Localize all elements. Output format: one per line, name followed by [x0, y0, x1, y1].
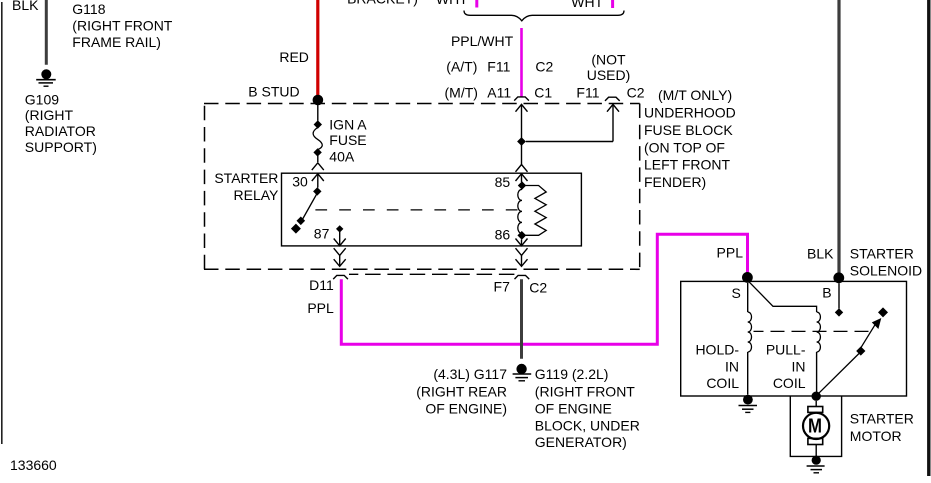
svg-text:BLK: BLK [12, 0, 39, 13]
svg-text:RELAY: RELAY [234, 187, 280, 203]
svg-text:STARTER: STARTER [850, 245, 914, 261]
svg-text:(M/T ONLY): (M/T ONLY) [658, 87, 732, 103]
svg-text:GENERATOR): GENERATOR) [535, 434, 627, 450]
svg-text:FUSE: FUSE [329, 132, 366, 148]
svg-text:MOTOR: MOTOR [850, 428, 902, 444]
svg-text:G109: G109 [25, 91, 59, 107]
svg-text:86: 86 [495, 226, 511, 242]
svg-text:PPL/WHT: PPL/WHT [451, 33, 514, 49]
svg-text:LEFT FRONT: LEFT FRONT [644, 157, 731, 173]
svg-text:BLK: BLK [807, 246, 834, 262]
svg-text:(M/T): (M/T) [445, 85, 478, 101]
svg-text:SUPPORT): SUPPORT) [25, 139, 97, 155]
svg-text:IN: IN [792, 358, 806, 374]
svg-text:RED: RED [279, 49, 309, 65]
svg-text:A11: A11 [487, 85, 511, 101]
svg-text:F11: F11 [576, 85, 599, 101]
svg-text:IGN A: IGN A [329, 117, 367, 133]
svg-text:G119 (2.2L): G119 (2.2L) [535, 366, 609, 382]
svg-text:PULL-: PULL- [766, 342, 806, 358]
svg-text:PPL: PPL [717, 245, 744, 261]
svg-text:COIL: COIL [773, 375, 806, 391]
svg-text:FRAME RAIL): FRAME RAIL) [72, 34, 161, 50]
svg-text:OF ENGINE: OF ENGINE [535, 400, 612, 416]
svg-text:G118: G118 [72, 1, 105, 17]
svg-text:S: S [732, 285, 741, 301]
svg-text:(RIGHT FRONT: (RIGHT FRONT [535, 383, 636, 399]
svg-text:BRACKET): BRACKET) [347, 0, 418, 7]
svg-text:C1: C1 [534, 85, 552, 101]
svg-text:UNDERHOOD: UNDERHOOD [644, 105, 736, 121]
svg-text:SOLENOID: SOLENOID [850, 263, 922, 279]
svg-text:B STUD: B STUD [248, 84, 299, 100]
svg-text:(RIGHT: (RIGHT [25, 107, 74, 123]
svg-text:(RIGHT REAR: (RIGHT REAR [416, 383, 507, 399]
svg-text:(RIGHT FRONT: (RIGHT FRONT [72, 17, 173, 33]
svg-text:IN: IN [725, 358, 739, 374]
svg-text:OF ENGINE): OF ENGINE) [425, 400, 507, 416]
svg-text:(4.3L) G117: (4.3L) G117 [433, 366, 507, 382]
svg-text:B: B [822, 285, 831, 301]
svg-text:F7: F7 [494, 279, 511, 295]
svg-text:STARTER: STARTER [850, 411, 914, 427]
svg-text:133660: 133660 [10, 457, 57, 473]
svg-text:(NOT: (NOT [591, 51, 626, 67]
svg-text:87: 87 [314, 225, 330, 241]
svg-text:(A/T): (A/T) [446, 58, 477, 74]
svg-text:BLOCK, UNDER: BLOCK, UNDER [535, 417, 640, 433]
svg-text:FUSE BLOCK: FUSE BLOCK [644, 122, 733, 138]
svg-text:C2: C2 [529, 280, 547, 296]
svg-text:M: M [808, 416, 822, 438]
svg-text:F11: F11 [487, 58, 510, 74]
svg-text:C2: C2 [535, 58, 553, 74]
svg-text:D11: D11 [309, 277, 334, 293]
svg-text:RADIATOR: RADIATOR [25, 123, 96, 139]
svg-text:PPL: PPL [307, 300, 334, 316]
svg-text:FENDER): FENDER) [644, 174, 706, 190]
svg-text:USED): USED) [587, 67, 631, 83]
svg-text:(ON TOP OF: (ON TOP OF [644, 139, 725, 155]
svg-text:STARTER: STARTER [214, 170, 278, 186]
svg-text:HOLD-: HOLD- [695, 342, 739, 358]
svg-text:WHT: WHT [571, 0, 603, 10]
svg-text:40A: 40A [329, 149, 355, 165]
svg-text:85: 85 [495, 174, 511, 190]
svg-text:WHT: WHT [436, 0, 468, 7]
svg-text:C2: C2 [627, 85, 645, 101]
svg-text:30: 30 [292, 174, 308, 190]
svg-text:COIL: COIL [706, 375, 739, 391]
